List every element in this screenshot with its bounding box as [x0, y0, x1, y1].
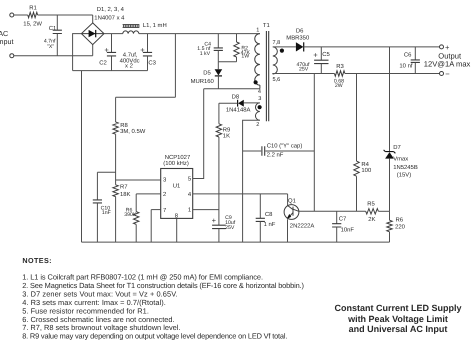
- resistor R5: [366, 209, 379, 214]
- wire sense drop: [313, 74, 315, 212]
- svg-text:with Peak Voltage Limit: with Peak Voltage Limit: [347, 314, 448, 324]
- resistor R6 (220): [389, 211, 391, 220]
- capacitor C3: [147, 34, 149, 53]
- svg-text:C3: C3: [148, 59, 156, 66]
- svg-text:7: 7: [163, 207, 166, 214]
- svg-text:12V@1A max: 12V@1A max: [424, 60, 471, 69]
- svg-text:L1, 1 mH: L1, 1 mH: [143, 22, 167, 29]
- resistor R9: [218, 103, 220, 124]
- svg-text:and Universal AC Input: and Universal AC Input: [349, 324, 448, 334]
- inductor L1: [123, 31, 139, 34]
- svg-text:R6: R6: [396, 216, 404, 223]
- svg-text:C5: C5: [322, 51, 330, 58]
- terminal AC line 2: [10, 54, 14, 58]
- svg-text:R1: R1: [29, 4, 37, 11]
- svg-text:U1: U1: [173, 182, 181, 189]
- svg-text:220: 220: [395, 223, 406, 230]
- capacitor C6: [414, 47, 416, 60]
- svg-text:2K: 2K: [368, 216, 375, 223]
- svg-text:D8: D8: [232, 94, 240, 101]
- svg-text:1N4148A: 1N4148A: [226, 106, 251, 113]
- svg-text:(100 kHz): (100 kHz): [163, 160, 189, 167]
- svg-text:C8: C8: [265, 211, 273, 218]
- svg-text:C7: C7: [339, 216, 347, 223]
- wire drain to T1 pin 4: [204, 88, 260, 90]
- wire secondary bottom rail: [273, 73, 335, 76]
- svg-text:1: 1: [256, 27, 259, 33]
- capacitor C8: [259, 194, 261, 218]
- transformer T1 primary winding pins 1-4: [255, 34, 260, 86]
- diode D6 MBR350: [296, 42, 304, 51]
- svg-text:1W: 1W: [241, 54, 249, 60]
- svg-text:C6: C6: [404, 52, 412, 59]
- svg-text:R9: R9: [223, 126, 231, 133]
- svg-text:−: −: [445, 69, 450, 78]
- wire R5 to D7 node: [378, 210, 389, 212]
- svg-text:7,8: 7,8: [273, 40, 281, 46]
- svg-text:+: +: [212, 216, 217, 225]
- wire output plus rail: [304, 46, 440, 48]
- svg-text:MBR350: MBR350: [286, 35, 310, 42]
- wire AC2 to bridge bottom vertex: [92, 45, 94, 56]
- svg-text:4: 4: [188, 191, 192, 198]
- svg-text:C2: C2: [99, 59, 107, 66]
- svg-text:100: 100: [361, 167, 372, 174]
- svg-text:"X": "X": [47, 44, 54, 50]
- svg-text:1nF: 1nF: [102, 210, 111, 216]
- wire pin 8 to ground: [176, 218, 178, 242]
- svg-text:390K: 390K: [124, 212, 137, 218]
- capacitor C10 Y cap: [243, 150, 262, 152]
- svg-text:1 nF: 1 nF: [264, 221, 276, 228]
- svg-text:10nF: 10nF: [341, 227, 355, 234]
- wire AC1 terminal to R1: [14, 14, 28, 16]
- svg-text:2W: 2W: [335, 83, 343, 89]
- wire bridge DC plus to L1: [104, 33, 123, 35]
- wire aux bottom pin 2: [243, 120, 260, 242]
- capacitor C2: [111, 34, 113, 53]
- svg-text:2N2222A: 2N2222A: [290, 222, 315, 229]
- svg-text:1: 1: [188, 207, 191, 214]
- resistor R3: [334, 71, 345, 76]
- svg-text:(15V): (15V): [397, 171, 411, 178]
- svg-text:T1: T1: [263, 22, 270, 29]
- svg-text:+: +: [140, 45, 145, 54]
- wire secondary top to D6: [273, 46, 296, 48]
- wire DC minus rail: [73, 70, 148, 72]
- wire AC2 rail: [14, 55, 93, 57]
- svg-text:R8: R8: [120, 122, 128, 129]
- svg-text:18K: 18K: [120, 191, 131, 198]
- svg-text:3: 3: [163, 177, 167, 184]
- resistor R8: [115, 97, 117, 122]
- wire aux top to D8: [244, 102, 260, 104]
- terminal output minus: [440, 72, 444, 76]
- capacitor C10 (1nF): [97, 171, 115, 173]
- svg-text:4.7uf,: 4.7uf,: [123, 51, 138, 58]
- diode D7 zener 1N5245B: [389, 47, 391, 151]
- svg-text:5,6: 5,6: [273, 77, 281, 83]
- svg-text:D6: D6: [296, 28, 304, 35]
- svg-text:+: +: [104, 45, 109, 54]
- svg-text:2: 2: [163, 191, 166, 198]
- svg-text:D1, 2, 3, 4: D1, 2, 3, 4: [97, 6, 125, 13]
- wire pin 2 to R6: [136, 193, 161, 195]
- svg-text:Constant Current LED Supply: Constant Current LED Supply: [334, 303, 461, 313]
- svg-text:5: 5: [188, 176, 192, 183]
- secondary polarity dot: [280, 49, 284, 53]
- wire bulk tap down: [174, 34, 176, 98]
- bridge rectifier D1,2,3,4: [81, 23, 104, 45]
- wire left ground drop: [81, 71, 83, 243]
- svg-text:R7: R7: [120, 184, 128, 191]
- svg-text:R5: R5: [367, 201, 375, 208]
- transformer T1 auxiliary winding pins 3-2: [255, 103, 259, 120]
- aux polarity dot: [258, 105, 262, 109]
- svg-text:D7: D7: [393, 144, 401, 151]
- capacitor C4: [217, 34, 219, 48]
- svg-text:25V: 25V: [225, 225, 235, 231]
- transformer core: [266, 31, 268, 121]
- svg-text:3M, 0.5W: 3M, 0.5W: [120, 128, 146, 135]
- svg-text:1K: 1K: [223, 132, 230, 139]
- wire pin 5 drain: [193, 89, 204, 179]
- capacitor C5: [320, 47, 322, 60]
- svg-text:1N4007 x 4: 1N4007 x 4: [94, 14, 125, 21]
- diode D8 1N4148A: [238, 100, 244, 107]
- transistor Q1 2N2222A: [287, 194, 289, 206]
- wire pin 1 Vcc: [193, 209, 219, 211]
- wire pin 7 to ground: [151, 209, 161, 211]
- svg-text:4: 4: [258, 89, 261, 95]
- wire output minus rail: [345, 73, 440, 75]
- wire collector rail: [299, 210, 366, 212]
- wire drop to bridge top vertex: [92, 15, 94, 23]
- svg-text:Q1: Q1: [288, 197, 296, 204]
- capacitor C9: [212, 225, 226, 228]
- capacitor C1: [56, 15, 58, 30]
- resistor R2: [236, 34, 238, 42]
- svg-text:10 nf: 10 nf: [399, 62, 412, 69]
- wire R1 to bridge top: [38, 14, 93, 16]
- svg-text:D5: D5: [203, 69, 211, 76]
- svg-text:8. R9 value may vary depending: 8. R9 value may vary depending on output…: [22, 332, 287, 341]
- wire bulk tap rail: [116, 96, 176, 98]
- wire pin 4 feedback rail: [193, 193, 288, 195]
- wire pin 3 brownout sense: [116, 179, 161, 181]
- svg-text:2: 2: [256, 122, 259, 128]
- svg-text:R3: R3: [336, 63, 344, 70]
- resistor R4: [356, 74, 358, 162]
- terminal output plus: [440, 45, 444, 49]
- svg-text:Input: Input: [0, 37, 14, 46]
- svg-text:Vmax: Vmax: [393, 156, 408, 163]
- svg-text:x 2: x 2: [125, 63, 133, 70]
- svg-text:+: +: [445, 43, 450, 52]
- svg-text:1N5245B: 1N5245B: [393, 164, 418, 171]
- svg-text:C10 ("Y" cap): C10 ("Y" cap): [267, 143, 303, 150]
- svg-text:C1: C1: [49, 25, 57, 32]
- svg-text:3: 3: [258, 96, 261, 102]
- svg-text:+: +: [313, 50, 318, 59]
- transformer T1 secondary winding pins 7,8 / 5,6: [273, 47, 278, 74]
- op-amp U1 NCP1027 box: [161, 169, 193, 219]
- resistor R6 (390K): [135, 194, 137, 212]
- svg-text:25V: 25V: [299, 67, 309, 73]
- wire bridge DC minus via left vertex: [73, 34, 82, 71]
- primary polarity dot: [254, 80, 258, 84]
- diode D5 MUR160: [217, 62, 219, 69]
- wire snubber bottom link: [218, 61, 236, 63]
- wire L1 to T1 pin 1: [139, 33, 260, 35]
- svg-text:MUR160: MUR160: [191, 78, 215, 85]
- svg-text:15, 2W: 15, 2W: [23, 20, 42, 27]
- svg-text:1 kV: 1 kV: [200, 51, 211, 57]
- terminal AC line 1: [10, 13, 14, 17]
- resistor R7: [113, 185, 118, 197]
- wire primary ground bus: [82, 241, 390, 243]
- svg-text:NOTES:: NOTES:: [22, 256, 52, 265]
- capacitor C7: [336, 211, 338, 223]
- resistor R1: [28, 12, 38, 17]
- svg-text:2.2 nF: 2.2 nF: [267, 151, 284, 158]
